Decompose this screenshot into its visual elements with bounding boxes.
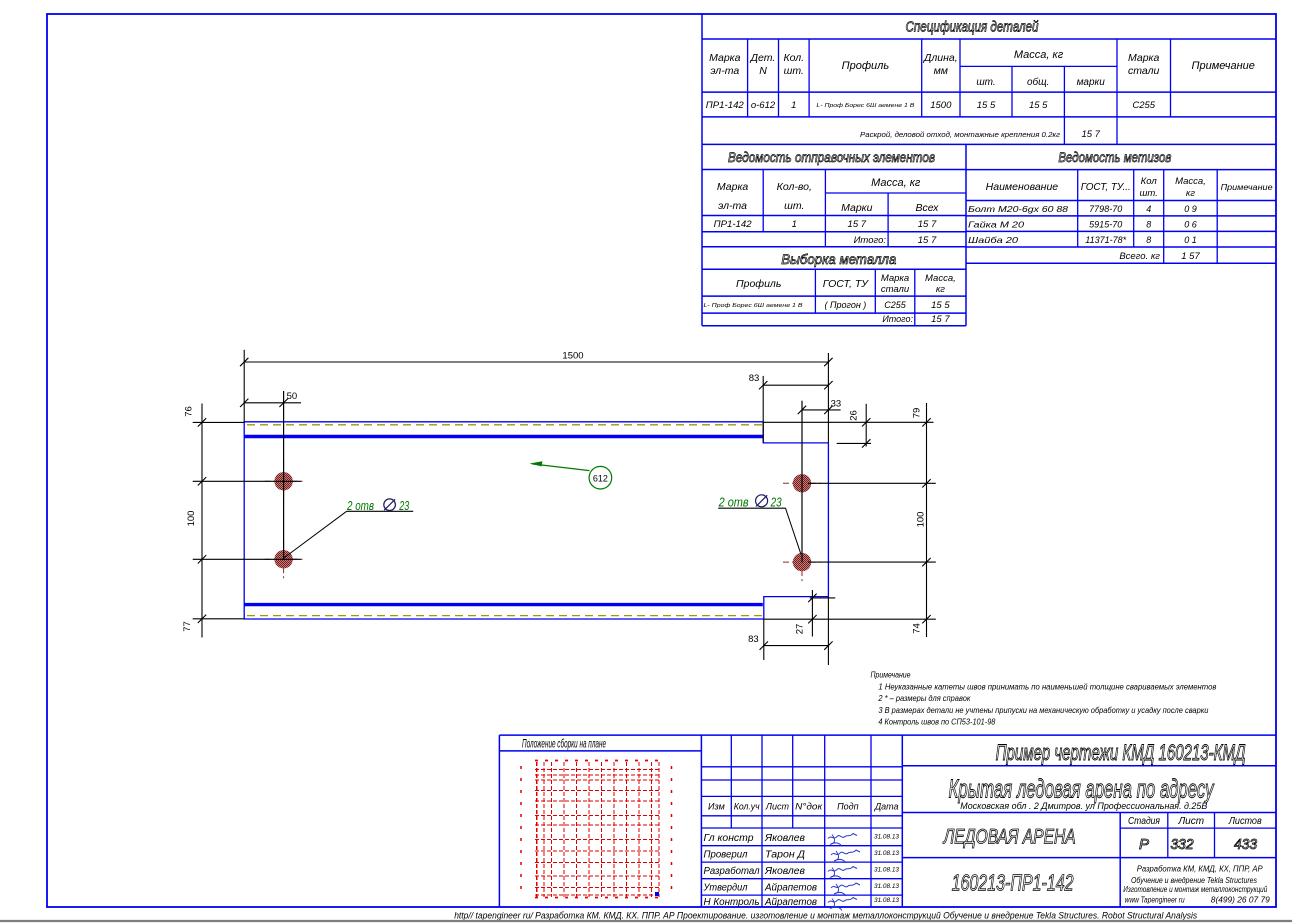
svg-text:Кол.уч: Кол.уч bbox=[734, 802, 760, 812]
svg-text:31.08.13: 31.08.13 bbox=[874, 883, 899, 890]
svg-text:15 7: 15 7 bbox=[848, 219, 867, 230]
svg-text:шт.: шт. bbox=[784, 65, 804, 77]
svg-text:общ.: общ. bbox=[1027, 76, 1049, 88]
svg-text:о-612: о-612 bbox=[751, 100, 776, 111]
svg-text:Гл констр: Гл констр bbox=[704, 833, 754, 844]
svg-text:79: 79 bbox=[912, 408, 923, 419]
svg-text:ГОСТ, ТУ: ГОСТ, ТУ bbox=[823, 278, 869, 290]
svg-text:Марка: Марка bbox=[709, 52, 741, 64]
svg-text:15 7: 15 7 bbox=[931, 314, 950, 325]
svg-text:ПР1-142: ПР1-142 bbox=[706, 100, 745, 111]
table: Ведомость метизов bbox=[966, 169, 1276, 171]
dimension extension lines (black) bbox=[243, 350, 245, 422]
svg-text:стали: стали bbox=[1128, 65, 1160, 77]
table: Выборка металла bbox=[702, 268, 966, 270]
svg-text:Айрапетов: Айрапетов bbox=[764, 897, 817, 908]
svg-text:4: 4 bbox=[1146, 204, 1151, 214]
svg-text:Дата: Дата bbox=[874, 802, 899, 812]
svg-text:3 В размерах детали не учтены: 3 В размерах детали не учтены припуски н… bbox=[878, 706, 1209, 715]
svg-text:Профиль: Профиль bbox=[842, 60, 890, 72]
svg-text:Обучение и внедрение Tekla St: Обучение и внедрение Tekla Structures bbox=[1131, 876, 1257, 885]
plate thick flange line top bbox=[244, 435, 763, 438]
svg-text:шт.: шт. bbox=[1140, 188, 1158, 199]
hole top-left ⌀23 red centerlines bbox=[265, 480, 303, 482]
svg-text:Листов: Листов bbox=[1228, 816, 1262, 827]
svg-text:Итого:: Итого: bbox=[882, 314, 913, 324]
dimension line 33 bbox=[802, 409, 841, 411]
svg-text:Н Контроль: Н Контроль bbox=[704, 897, 760, 908]
svg-text:ЛЕДОВАЯ АРЕНА: ЛЕДОВАЯ АРЕНА bbox=[942, 826, 1075, 849]
svg-text:15 7: 15 7 bbox=[1081, 129, 1100, 140]
left chain ticks 76/100/77 bbox=[198, 418, 206, 426]
dimension line 83 bottom bbox=[764, 645, 829, 647]
svg-text:612: 612 bbox=[593, 473, 608, 483]
svg-text:Марка: Марка bbox=[1128, 52, 1160, 64]
svg-text:Итого:: Итого: bbox=[854, 235, 887, 246]
dimension line 1500 bbox=[244, 361, 828, 363]
svg-text:Марка: Марка bbox=[717, 181, 749, 193]
svg-text:11371-78*: 11371-78* bbox=[1085, 235, 1126, 245]
svg-text:Айрапетов: Айрапетов bbox=[764, 883, 817, 894]
svg-text:433: 433 bbox=[1234, 836, 1258, 853]
svg-text:ПР1-142: ПР1-142 bbox=[714, 219, 753, 230]
svg-text:1: 1 bbox=[791, 100, 796, 111]
svg-text:L- Проф Борес 6Ш аемене 1 В: L- Проф Борес 6Ш аемене 1 В bbox=[816, 103, 914, 109]
hole bottom-left ⌀23 red centerlines bbox=[265, 558, 303, 560]
svg-text:33: 33 bbox=[831, 399, 842, 410]
svg-text:7798-70: 7798-70 bbox=[1089, 204, 1122, 214]
svg-text:Гайка М 20: Гайка М 20 bbox=[968, 220, 1024, 230]
svg-text:Марки: Марки bbox=[841, 202, 873, 214]
dimension line 50 bbox=[244, 402, 301, 404]
svg-text:15 7: 15 7 bbox=[918, 219, 937, 230]
svg-text:Подп: Подп bbox=[837, 802, 859, 812]
svg-text:Положение сборки на плане: Положение сборки на плане bbox=[522, 737, 606, 751]
svg-text:0 9: 0 9 bbox=[1184, 204, 1197, 214]
red grid plan bbox=[536, 762, 538, 897]
svg-text:Примечание: Примечание bbox=[871, 671, 911, 680]
svg-text:эл-та: эл-та bbox=[718, 200, 747, 212]
hole top-right ⌀23 red centerlines bbox=[783, 482, 821, 484]
svg-text:332: 332 bbox=[1171, 836, 1195, 853]
svg-text:Примечание: Примечание bbox=[1221, 182, 1273, 192]
svg-text:( Прогон ): ( Прогон ) bbox=[824, 300, 866, 310]
svg-text:http// tapengineer ru/ Разра: http// tapengineer ru/ Разработка КМ. КМ… bbox=[454, 910, 1197, 921]
svg-text:Стадия: Стадия bbox=[1128, 816, 1161, 827]
svg-text:Кол.: Кол. bbox=[783, 52, 804, 64]
svg-text:С255: С255 bbox=[884, 300, 907, 310]
svg-text:27: 27 bbox=[795, 624, 806, 635]
svg-text:83: 83 bbox=[748, 634, 759, 645]
svg-text:Примечание: Примечание bbox=[1192, 60, 1255, 72]
svg-text:Изм: Изм bbox=[708, 802, 725, 812]
centerline dashed bottom bbox=[247, 615, 762, 617]
svg-text:Изготовление и монтаж металлок: Изготовление и монтаж металлоконструкций bbox=[1123, 885, 1267, 894]
svg-text:мм: мм bbox=[934, 65, 948, 77]
svg-text:100: 100 bbox=[916, 512, 927, 528]
svg-text:Московская обл . 2 Дмитров. у: Московская обл . 2 Дмитров. ул Профессио… bbox=[960, 801, 1207, 811]
table: Ведомость отправочных элементов bbox=[702, 169, 966, 171]
svg-text:0 6: 0 6 bbox=[1184, 220, 1197, 230]
svg-text:Лист: Лист bbox=[765, 802, 790, 812]
svg-text:Раскрой, деловой отход, монтаж: Раскрой, деловой отход, монтажные крепле… bbox=[860, 130, 1060, 139]
signatures (blue scribbles) bbox=[828, 834, 857, 839]
title block grid lines bbox=[499, 734, 1275, 736]
svg-text:Наименование: Наименование bbox=[986, 181, 1059, 193]
bottom window border bbox=[0, 920, 1292, 922]
svg-text:2 * – размеры для справок: 2 * – размеры для справок bbox=[877, 694, 971, 703]
svg-text:15 5: 15 5 bbox=[931, 300, 950, 311]
svg-text:кг: кг bbox=[1186, 188, 1195, 199]
svg-text:Спецификация деталей: Спецификация деталей bbox=[906, 19, 1040, 36]
svg-text:кг: кг bbox=[936, 284, 945, 295]
svg-text:Пример чертежи КМД 160213-КМД: Пример чертежи КМД 160213-КМД bbox=[996, 740, 1246, 765]
svg-text:Кол: Кол bbox=[1141, 176, 1158, 187]
green leader arrow bbox=[532, 464, 590, 471]
svg-text:стали: стали bbox=[881, 284, 910, 295]
svg-text:Проверил: Проверил bbox=[704, 850, 748, 861]
hole top-right ⌀23 bbox=[793, 474, 811, 492]
svg-text:1500: 1500 bbox=[930, 100, 952, 111]
svg-text:50: 50 bbox=[287, 391, 298, 402]
svg-text:ГОСТ, ТУ...: ГОСТ, ТУ... bbox=[1081, 181, 1131, 193]
dim 26 ticks bbox=[862, 418, 870, 426]
svg-text:Масса,: Масса, bbox=[1175, 176, 1206, 187]
svg-text:15 5: 15 5 bbox=[977, 100, 996, 111]
svg-text:Всех: Всех bbox=[916, 202, 940, 214]
svg-text:160213-ПР1-142: 160213-ПР1-142 bbox=[952, 870, 1074, 896]
svg-text:N: N bbox=[759, 65, 767, 77]
svg-text:Крытая ледовая арена по адресу: Крытая ледовая арена по адресу bbox=[949, 774, 1215, 804]
svg-text:100: 100 bbox=[186, 511, 197, 527]
svg-text:L- Проф Борес 6Ш аемене 1 В: L- Проф Борес 6Ш аемене 1 В bbox=[704, 303, 803, 309]
svg-text:Утвердил: Утвердил bbox=[703, 883, 748, 894]
svg-text:77: 77 bbox=[182, 621, 193, 632]
svg-text:Шайба 20: Шайба 20 bbox=[968, 235, 1018, 245]
plate thick flange line bottom bbox=[244, 603, 763, 606]
svg-text:83: 83 bbox=[749, 373, 760, 384]
svg-text:Длина,: Длина, bbox=[923, 52, 958, 64]
svg-text:С255: С255 bbox=[1132, 100, 1155, 111]
svg-text:N°док: N°док bbox=[795, 802, 823, 812]
dim 27 ticks bbox=[808, 594, 816, 602]
svg-text:эл-та: эл-та bbox=[710, 65, 739, 77]
svg-text:2 отв: 2 отв bbox=[718, 494, 749, 509]
svg-text:1: 1 bbox=[792, 219, 797, 230]
svg-text:Масса, кг: Масса, кг bbox=[871, 177, 921, 189]
svg-text:Лист: Лист bbox=[1177, 816, 1204, 827]
svg-text:31.08.13: 31.08.13 bbox=[874, 866, 899, 873]
right chain ticks 79/100/74 bbox=[922, 418, 930, 426]
centerline dashed top bbox=[247, 424, 762, 426]
svg-text:4 Контроль швов по СП53-101-9: 4 Контроль швов по СП53-101-98 bbox=[878, 718, 995, 727]
svg-text:8: 8 bbox=[1146, 235, 1151, 245]
hole bottom-right ⌀23 bbox=[793, 553, 811, 571]
svg-text:шт.: шт. bbox=[784, 200, 804, 212]
svg-text:31.08.13: 31.08.13 bbox=[874, 897, 899, 904]
svg-text:8: 8 bbox=[1146, 220, 1151, 230]
svg-text:Ведомость метизов: Ведомость метизов bbox=[1058, 149, 1171, 165]
svg-text:31.08.13: 31.08.13 bbox=[874, 833, 899, 840]
dimension line 83 top bbox=[763, 384, 828, 386]
hole top-left ⌀23 bbox=[274, 472, 292, 490]
svg-text:Ведомость отправочных элементо: Ведомость отправочных элементов bbox=[728, 149, 935, 165]
svg-text:23: 23 bbox=[770, 494, 782, 509]
svg-text:шт.: шт. bbox=[976, 77, 995, 88]
svg-text:Марка: Марка bbox=[881, 273, 909, 284]
svg-text:1500: 1500 bbox=[562, 351, 583, 362]
green mark circle 612 bbox=[589, 466, 612, 489]
svg-text:www Tapengineer ru: www Tapengineer ru bbox=[1125, 896, 1185, 905]
svg-text:Разработка КМ, КМД, КХ, ППР, А: Разработка КМ, КМД, КХ, ППР, АР bbox=[1137, 865, 1264, 874]
svg-text:76: 76 bbox=[184, 406, 195, 417]
svg-text:Профиль: Профиль bbox=[736, 278, 781, 290]
svg-text:Всего. кг: Всего. кг bbox=[1119, 251, 1160, 262]
svg-text:1 Неуказанные катеты швов при: 1 Неуказанные катеты швов принимать по н… bbox=[878, 683, 1216, 692]
plate ПР1-142 outline (thin blue) bbox=[244, 422, 828, 619]
svg-text:Болт М20-6gх 60 88: Болт М20-6gх 60 88 bbox=[968, 205, 1069, 214]
hole bottom-right ⌀23 red centerlines bbox=[783, 561, 821, 563]
svg-text:Кол-во,: Кол-во, bbox=[777, 181, 812, 193]
svg-text:5915-70: 5915-70 bbox=[1089, 220, 1122, 230]
svg-text:Масса,: Масса, bbox=[925, 273, 956, 284]
svg-text:1 57: 1 57 bbox=[1181, 251, 1200, 262]
hole bottom-left ⌀23 bbox=[274, 550, 292, 568]
svg-text:15 7: 15 7 bbox=[918, 235, 937, 246]
svg-text:Р: Р bbox=[1139, 836, 1149, 853]
svg-text:15 5: 15 5 bbox=[1029, 100, 1048, 111]
svg-text:Выборка металла: Выборка металла bbox=[781, 251, 896, 267]
svg-text:31.08.13: 31.08.13 bbox=[874, 850, 899, 857]
svg-text:Яковлев: Яковлев bbox=[764, 866, 805, 877]
svg-text:Масса, кг: Масса, кг bbox=[1014, 49, 1064, 61]
svg-text:0 1: 0 1 bbox=[1184, 235, 1197, 245]
svg-text:8(499) 26 07 79: 8(499) 26 07 79 bbox=[1211, 896, 1271, 905]
table: Специфитация деталей bbox=[702, 38, 1276, 40]
svg-text:Тарон Д: Тарон Д bbox=[765, 850, 805, 861]
svg-text:26: 26 bbox=[849, 410, 860, 421]
svg-text:74: 74 bbox=[912, 623, 923, 634]
svg-text:марки: марки bbox=[1077, 77, 1106, 88]
svg-text:Разработал: Разработал bbox=[704, 865, 760, 877]
svg-text:Яковлев: Яковлев bbox=[764, 833, 805, 844]
svg-text:Дет.: Дет. bbox=[750, 52, 776, 64]
